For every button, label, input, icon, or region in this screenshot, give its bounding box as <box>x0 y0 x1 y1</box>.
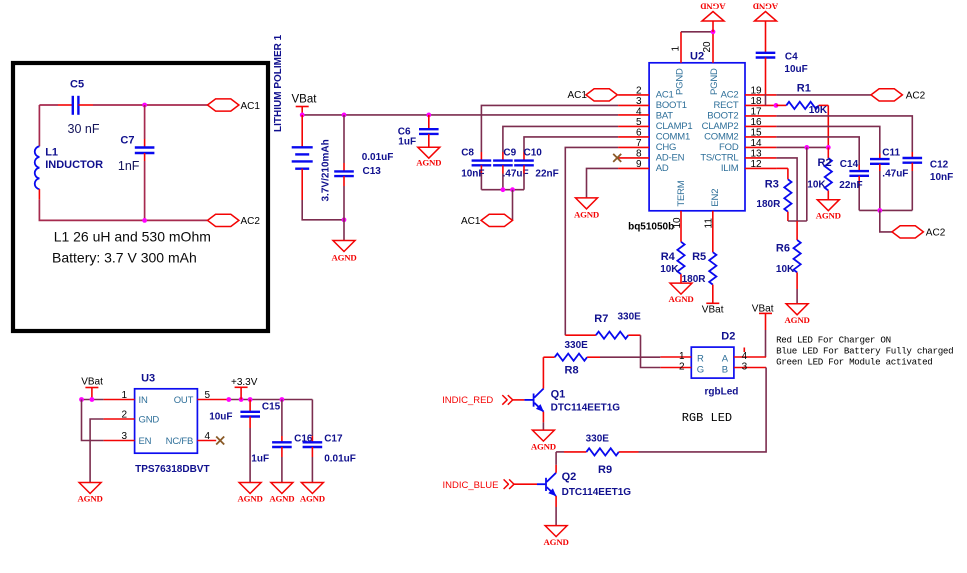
wire C10 bottom <box>523 174 525 190</box>
svg-text:30 nF: 30 nF <box>68 122 100 136</box>
port AC2 (to pin 19) <box>871 89 926 102</box>
svg-text:C7: C7 <box>120 135 134 147</box>
node battery/C13 bottom <box>342 217 347 222</box>
svg-text:VBat: VBat <box>81 377 103 388</box>
pin 15 COMM2 <box>704 127 776 142</box>
svg-text:NC/FB: NC/FB <box>166 436 194 447</box>
resistor R5 180R <box>682 251 717 303</box>
ground AGND (R6) <box>785 304 810 325</box>
wire bottom loop <box>38 189 40 200</box>
svg-text:8: 8 <box>636 148 642 159</box>
wire C7 down <box>144 161 146 220</box>
wire OUT rail <box>229 399 313 401</box>
svg-text:C8: C8 <box>461 147 474 158</box>
svg-text:INDIC_RED: INDIC_RED <box>442 395 493 406</box>
svg-text:R5: R5 <box>692 251 706 263</box>
svg-text:1: 1 <box>121 390 127 401</box>
pin 8 AD-EN no-connect <box>613 148 684 163</box>
svg-text:C9: C9 <box>503 147 516 158</box>
svg-text:D2: D2 <box>721 331 735 343</box>
svg-text:6: 6 <box>636 127 642 138</box>
node PGND <box>711 29 716 34</box>
wire down to AC2 port <box>880 210 892 232</box>
svg-text:IN: IN <box>139 395 148 406</box>
pin 3 EN <box>104 431 152 447</box>
node RECT <box>774 103 779 108</box>
ground AGND under C13 <box>331 241 356 263</box>
svg-text:1uF: 1uF <box>398 136 416 147</box>
svg-text:U3: U3 <box>141 373 155 385</box>
port AC2 (lower) <box>892 226 946 239</box>
op-amp U2 bq51050b box <box>649 63 745 211</box>
ground AGND flipped (PGND) <box>700 2 725 21</box>
resistor R2 10K <box>807 147 832 199</box>
svg-text:180R: 180R <box>682 274 707 285</box>
wire FOD node down <box>806 147 808 221</box>
diode D2 rgbLed box <box>691 331 738 398</box>
wire PGND link <box>681 31 713 33</box>
svg-text:4: 4 <box>205 431 211 442</box>
svg-text:BOOT1: BOOT1 <box>656 100 687 111</box>
svg-text:INDUCTOR: INDUCTOR <box>45 159 103 171</box>
wire AC2 bottom rail <box>859 209 912 211</box>
svg-text:VBat: VBat <box>702 304 724 315</box>
wire R1 down to FOD node <box>827 105 829 147</box>
svg-text:10: 10 <box>672 217 683 229</box>
svg-text:14: 14 <box>751 138 763 149</box>
svg-text:5: 5 <box>636 117 642 128</box>
svg-text:AC2: AC2 <box>721 90 739 101</box>
pin 20 PGND <box>702 32 720 95</box>
power +3.3V <box>231 377 258 399</box>
svg-text:RECT: RECT <box>713 100 738 111</box>
svg-text:C11: C11 <box>882 148 900 159</box>
svg-text:10K: 10K <box>660 264 679 275</box>
svg-text:LITHIUM POLIMER 1: LITHIUM POLIMER 1 <box>273 34 284 132</box>
wire CLAMP2 to C11 <box>776 126 879 153</box>
svg-text:C14: C14 <box>840 159 859 170</box>
svg-text:3: 3 <box>742 361 748 372</box>
svg-text:BOOT2: BOOT2 <box>707 111 738 122</box>
transistor Q2 DTC114EET1G <box>514 471 631 498</box>
wire Q1 collector <box>542 357 544 388</box>
ground AGND (C15) <box>238 483 263 504</box>
wire R7 to G pin <box>641 335 661 367</box>
pin 4 A <box>734 348 766 362</box>
wire C9 bottom <box>502 174 504 190</box>
node +3.3V stub <box>239 397 244 402</box>
wire Q2 collector <box>555 452 557 473</box>
svg-text:rgbLed: rgbLed <box>705 386 739 397</box>
svg-text:10K: 10K <box>807 179 826 190</box>
svg-text:3: 3 <box>636 96 642 107</box>
svg-text:BAT: BAT <box>656 111 674 122</box>
svg-text:3.7V/210mAh: 3.7V/210mAh <box>321 139 332 201</box>
svg-text:AC1: AC1 <box>568 90 588 101</box>
svg-text:COMM1: COMM1 <box>656 132 690 143</box>
node OUT <box>226 397 231 402</box>
svg-text:10uF: 10uF <box>784 64 807 75</box>
svg-text:A: A <box>722 354 729 365</box>
capacitor C11 <box>870 148 908 211</box>
svg-text:16: 16 <box>751 117 763 128</box>
svg-text:AC2: AC2 <box>241 216 261 227</box>
svg-text:4: 4 <box>636 106 642 117</box>
ground AGND (C17) <box>300 483 325 504</box>
svg-text:AGND: AGND <box>331 253 356 263</box>
power VBat (D2 anode) <box>752 304 774 357</box>
svg-text:330E: 330E <box>618 311 642 322</box>
wire COMM1 to C10 <box>524 137 618 152</box>
capacitor C15 <box>209 400 280 483</box>
pin 10 TERM <box>672 180 687 242</box>
wire down to AC1 port <box>512 190 514 221</box>
wire Q1 emitter <box>542 412 544 430</box>
svg-text:VBat: VBat <box>292 94 318 106</box>
wire CLAMP1 to C9 <box>503 126 618 152</box>
svg-text:1nF: 1nF <box>118 159 140 173</box>
svg-text:AGND: AGND <box>544 537 569 547</box>
node AC2 drop <box>877 208 882 213</box>
svg-text:G: G <box>697 365 704 376</box>
capacitor C4 <box>756 21 808 105</box>
svg-text:22nF: 22nF <box>839 180 862 191</box>
wire <box>78 104 93 106</box>
pin 19 AC2 <box>721 85 777 100</box>
svg-text:DTC114EET1G: DTC114EET1G <box>562 487 632 498</box>
capacitor C7 <box>118 105 154 173</box>
resistor R3 180R <box>756 168 791 221</box>
ground AGND (R2) <box>816 200 841 221</box>
svg-text:AD: AD <box>656 163 669 174</box>
ground AGND (Q1) <box>531 430 556 451</box>
svg-text:bq51050b: bq51050b <box>628 222 674 233</box>
svg-text:AGND: AGND <box>785 315 810 325</box>
svg-text:AC1: AC1 <box>656 90 674 101</box>
wire GND to AGND <box>90 419 104 483</box>
svg-text:INDIC_BLUE: INDIC_BLUE <box>443 480 499 491</box>
svg-text:10uF: 10uF <box>209 412 232 423</box>
capacitor C6 <box>398 115 439 147</box>
pin 9 AD <box>618 159 669 174</box>
ground AGND (U3) <box>78 483 103 504</box>
svg-text:AC1: AC1 <box>241 101 261 112</box>
pin 3 B <box>734 361 766 372</box>
capacitor C12 <box>903 152 954 210</box>
ground AGND under C6 <box>416 147 441 167</box>
svg-text:C5: C5 <box>70 79 84 91</box>
pin 12 ILIM <box>721 159 777 174</box>
capacitor C17 <box>303 400 356 483</box>
svg-text:Red LED For Charger ON: Red LED For Charger ON <box>776 335 891 346</box>
svg-text:B: B <box>722 365 728 376</box>
svg-text:C10: C10 <box>524 147 543 158</box>
svg-text:180R: 180R <box>756 199 781 210</box>
inductor L1 <box>35 146 103 189</box>
pin 1 R <box>660 351 691 362</box>
port AC2 (box) <box>208 214 261 227</box>
op-amp U3 TPS76318DBVT box <box>135 373 210 475</box>
pin 7 CHG <box>618 138 676 153</box>
power VBat (battery) <box>292 94 318 115</box>
svg-text:4: 4 <box>742 351 748 362</box>
svg-text:10nF: 10nF <box>930 172 953 183</box>
pin 16 CLAMP2 <box>702 117 777 132</box>
svg-text:PGND: PGND <box>709 68 720 95</box>
svg-text:R6: R6 <box>776 243 790 255</box>
svg-text:AC2: AC2 <box>906 90 926 101</box>
svg-text:ILIM: ILIM <box>721 163 739 174</box>
svg-text:R3: R3 <box>765 178 779 190</box>
wire AC1 bottom rail <box>481 189 524 191</box>
port INDIC_RED <box>442 395 513 406</box>
pin 5 CLAMP1 <box>618 117 692 132</box>
svg-text:R9: R9 <box>598 464 612 476</box>
wire battery bottom to C13 bottom <box>302 200 344 220</box>
node C9 bottom <box>501 187 506 192</box>
port INDIC_BLUE <box>443 479 515 490</box>
pin 1 IN <box>104 390 148 406</box>
wire VBat rail to U2 BAT <box>302 114 618 116</box>
wire BOOT1 to C8 <box>481 105 618 152</box>
resistor R8 330E <box>543 354 660 377</box>
wire CHG vertical <box>565 147 618 335</box>
port AC1 (box) <box>208 99 261 112</box>
svg-text:EN: EN <box>139 436 152 447</box>
svg-text:AGND: AGND <box>574 210 599 220</box>
svg-text:CLAMP2: CLAMP2 <box>702 121 739 132</box>
pin 6 COMM1 <box>618 127 690 142</box>
node junction C7 bottom <box>142 218 147 223</box>
svg-text:C17: C17 <box>324 433 343 444</box>
svg-text:13: 13 <box>751 148 763 159</box>
svg-text:18: 18 <box>751 96 763 107</box>
ground AGND (AD) <box>574 198 599 220</box>
wire to flipped AGND <box>712 21 714 32</box>
svg-text:11: 11 <box>704 218 715 229</box>
node VBat <box>300 113 305 118</box>
svg-text:0.01uF: 0.01uF <box>324 454 356 465</box>
svg-text:19: 19 <box>751 85 763 96</box>
svg-text:330E: 330E <box>586 434 610 445</box>
svg-text:DTC114EET1G: DTC114EET1G <box>551 403 621 414</box>
svg-text:Green LED For Module activated: Green LED For Module activated <box>776 356 932 367</box>
wire C8 bottom <box>480 174 482 190</box>
node C13 top <box>342 113 347 118</box>
node FOD mid <box>804 145 809 150</box>
svg-text:AGND: AGND <box>238 494 263 504</box>
svg-text:AGND: AGND <box>416 158 441 168</box>
svg-text:Q2: Q2 <box>562 471 577 483</box>
svg-text:CLAMP1: CLAMP1 <box>656 121 693 132</box>
wire Q2 emitter <box>555 496 557 526</box>
svg-text:22nF: 22nF <box>535 168 558 179</box>
svg-text:R8: R8 <box>565 365 579 377</box>
svg-text:2: 2 <box>679 361 685 372</box>
port AC1 (to pin 2) <box>568 89 618 101</box>
svg-text:R: R <box>697 354 704 365</box>
svg-text:20: 20 <box>702 41 713 53</box>
wire top loop <box>38 105 40 146</box>
svg-text:PGND: PGND <box>674 68 685 95</box>
svg-text:TPS76318DBVT: TPS76318DBVT <box>135 464 209 475</box>
power VBat (U3) <box>81 377 103 400</box>
svg-text:AGND: AGND <box>531 441 556 451</box>
svg-text:AGND: AGND <box>753 2 778 12</box>
svg-text:5: 5 <box>205 390 211 401</box>
transistor Q1 DTC114EET1G <box>513 388 621 413</box>
resistor R9 330E <box>556 448 638 476</box>
svg-text:Battery: 3.7 V 300 mAh: Battery: 3.7 V 300 mAh <box>52 250 197 266</box>
svg-text:RGB LED: RGB LED <box>682 411 732 425</box>
svg-text:Blue LED For Battery Fully cha: Blue LED For Battery Fully charged <box>776 345 953 356</box>
pin 2 G <box>660 361 691 372</box>
pin 13 TS/CTRL <box>700 148 776 163</box>
svg-text:1uF: 1uF <box>251 454 269 465</box>
wire COMM2 to C14 <box>776 137 859 165</box>
svg-text:0.01uF: 0.01uF <box>362 152 394 163</box>
svg-text:R2: R2 <box>818 157 832 169</box>
capacitor C13 <box>334 115 393 241</box>
svg-text:12: 12 <box>751 159 763 170</box>
svg-text:AGND: AGND <box>816 211 841 221</box>
wire AC2 to port <box>776 94 871 96</box>
svg-text:FOD: FOD <box>719 142 739 153</box>
svg-text:GND: GND <box>139 415 160 426</box>
svg-text:Q1: Q1 <box>551 388 566 400</box>
svg-text:OUT: OUT <box>174 395 194 406</box>
svg-text:TS/CTRL: TS/CTRL <box>700 153 738 164</box>
pin 4 BAT <box>618 106 673 121</box>
pin 3 BOOT1 <box>618 96 687 111</box>
svg-text:L1: L1 <box>45 147 58 159</box>
svg-text:15: 15 <box>751 127 763 138</box>
node FOD/R1/R2 <box>826 145 831 150</box>
svg-text:2: 2 <box>121 410 127 421</box>
svg-text:7: 7 <box>636 138 642 149</box>
wire AD to AGND <box>587 168 619 198</box>
ground AGND (C16) <box>269 483 294 504</box>
svg-text:AD-EN: AD-EN <box>656 153 685 164</box>
port AC1 (lower) <box>461 214 513 227</box>
pin 14 FOD <box>719 138 776 153</box>
wire B pin to R9 <box>639 368 767 452</box>
resistor R4 10K <box>660 242 684 283</box>
ground AGND (R4) <box>668 283 693 304</box>
svg-text:C15: C15 <box>262 402 281 413</box>
svg-text:L1 26 uH and 530 mOhm: L1 26 uH and 530 mOhm <box>54 229 211 245</box>
power VBat (R5) <box>702 303 724 315</box>
svg-text:17: 17 <box>751 106 763 117</box>
wire IN net <box>82 399 104 401</box>
svg-text:AGND: AGND <box>300 494 325 504</box>
svg-text:COMM2: COMM2 <box>704 132 738 143</box>
svg-text:1: 1 <box>679 351 685 362</box>
pin 1 PGND <box>671 32 686 95</box>
svg-text:AGND: AGND <box>269 494 294 504</box>
node AC1 drop <box>510 187 515 192</box>
pin 2 GND <box>104 410 160 426</box>
svg-text:AC1: AC1 <box>461 216 481 227</box>
svg-text:10K: 10K <box>809 105 828 116</box>
wire TS/CTRL down <box>776 158 797 221</box>
svg-text:EN2: EN2 <box>710 189 721 207</box>
svg-text:C12: C12 <box>930 159 949 170</box>
capacitor C8 <box>461 147 491 179</box>
resistor R7 330E <box>565 311 641 339</box>
svg-text:AGND: AGND <box>78 494 103 504</box>
svg-text:R7: R7 <box>594 313 608 325</box>
svg-text:C4: C4 <box>785 52 798 63</box>
enclosure box LITHIUM POLYMER <box>13 63 268 331</box>
battery BT1 3.7V/210mAh <box>292 115 332 202</box>
svg-text:R1: R1 <box>797 83 811 95</box>
pin 4 NC/FB no-connect <box>166 431 225 447</box>
node IN/loop <box>79 397 84 402</box>
svg-text:CHG: CHG <box>656 142 677 153</box>
svg-text:C13: C13 <box>363 166 382 177</box>
capacitor C14 <box>839 159 869 211</box>
node IN/VBat <box>90 397 95 402</box>
svg-text:AC2: AC2 <box>926 228 946 239</box>
capacitor C10 <box>514 147 559 179</box>
pin 17 BOOT2 <box>707 106 776 121</box>
capacitor C16 <box>272 400 313 483</box>
svg-text:R4: R4 <box>661 251 676 263</box>
node C6 top <box>426 113 431 118</box>
svg-text:3: 3 <box>121 431 127 442</box>
resistor R1 10K <box>776 83 828 116</box>
svg-text:330E: 330E <box>565 340 589 351</box>
pin 5 OUT <box>174 390 229 406</box>
svg-text:AGND: AGND <box>700 2 725 12</box>
wire FOD line <box>776 146 828 148</box>
ground AGND flipped (C4) <box>753 2 778 21</box>
svg-text:9: 9 <box>636 159 642 170</box>
svg-text:.47uF: .47uF <box>882 169 908 180</box>
capacitor C5 <box>68 79 100 137</box>
svg-text:TERM: TERM <box>676 180 687 206</box>
wire R3/R6 rail <box>788 220 807 222</box>
wire IN to EN loop <box>82 400 104 441</box>
svg-text:2: 2 <box>636 85 642 96</box>
node C16 <box>280 397 285 402</box>
node junction C5/C7 <box>142 103 147 108</box>
resistor R6 10K <box>776 221 801 304</box>
svg-text:AGND: AGND <box>668 294 693 304</box>
ground AGND (Q2) <box>544 526 569 547</box>
pin 11 EN2 <box>704 189 722 252</box>
capacitor C9 <box>493 147 529 179</box>
wire BOOT2 to C12 <box>776 116 912 152</box>
svg-text:10K: 10K <box>776 264 795 275</box>
node C15 <box>248 397 253 402</box>
pin 18 RECT <box>713 96 776 111</box>
svg-text:1: 1 <box>671 46 682 52</box>
pin 2 AC1 <box>618 85 673 100</box>
